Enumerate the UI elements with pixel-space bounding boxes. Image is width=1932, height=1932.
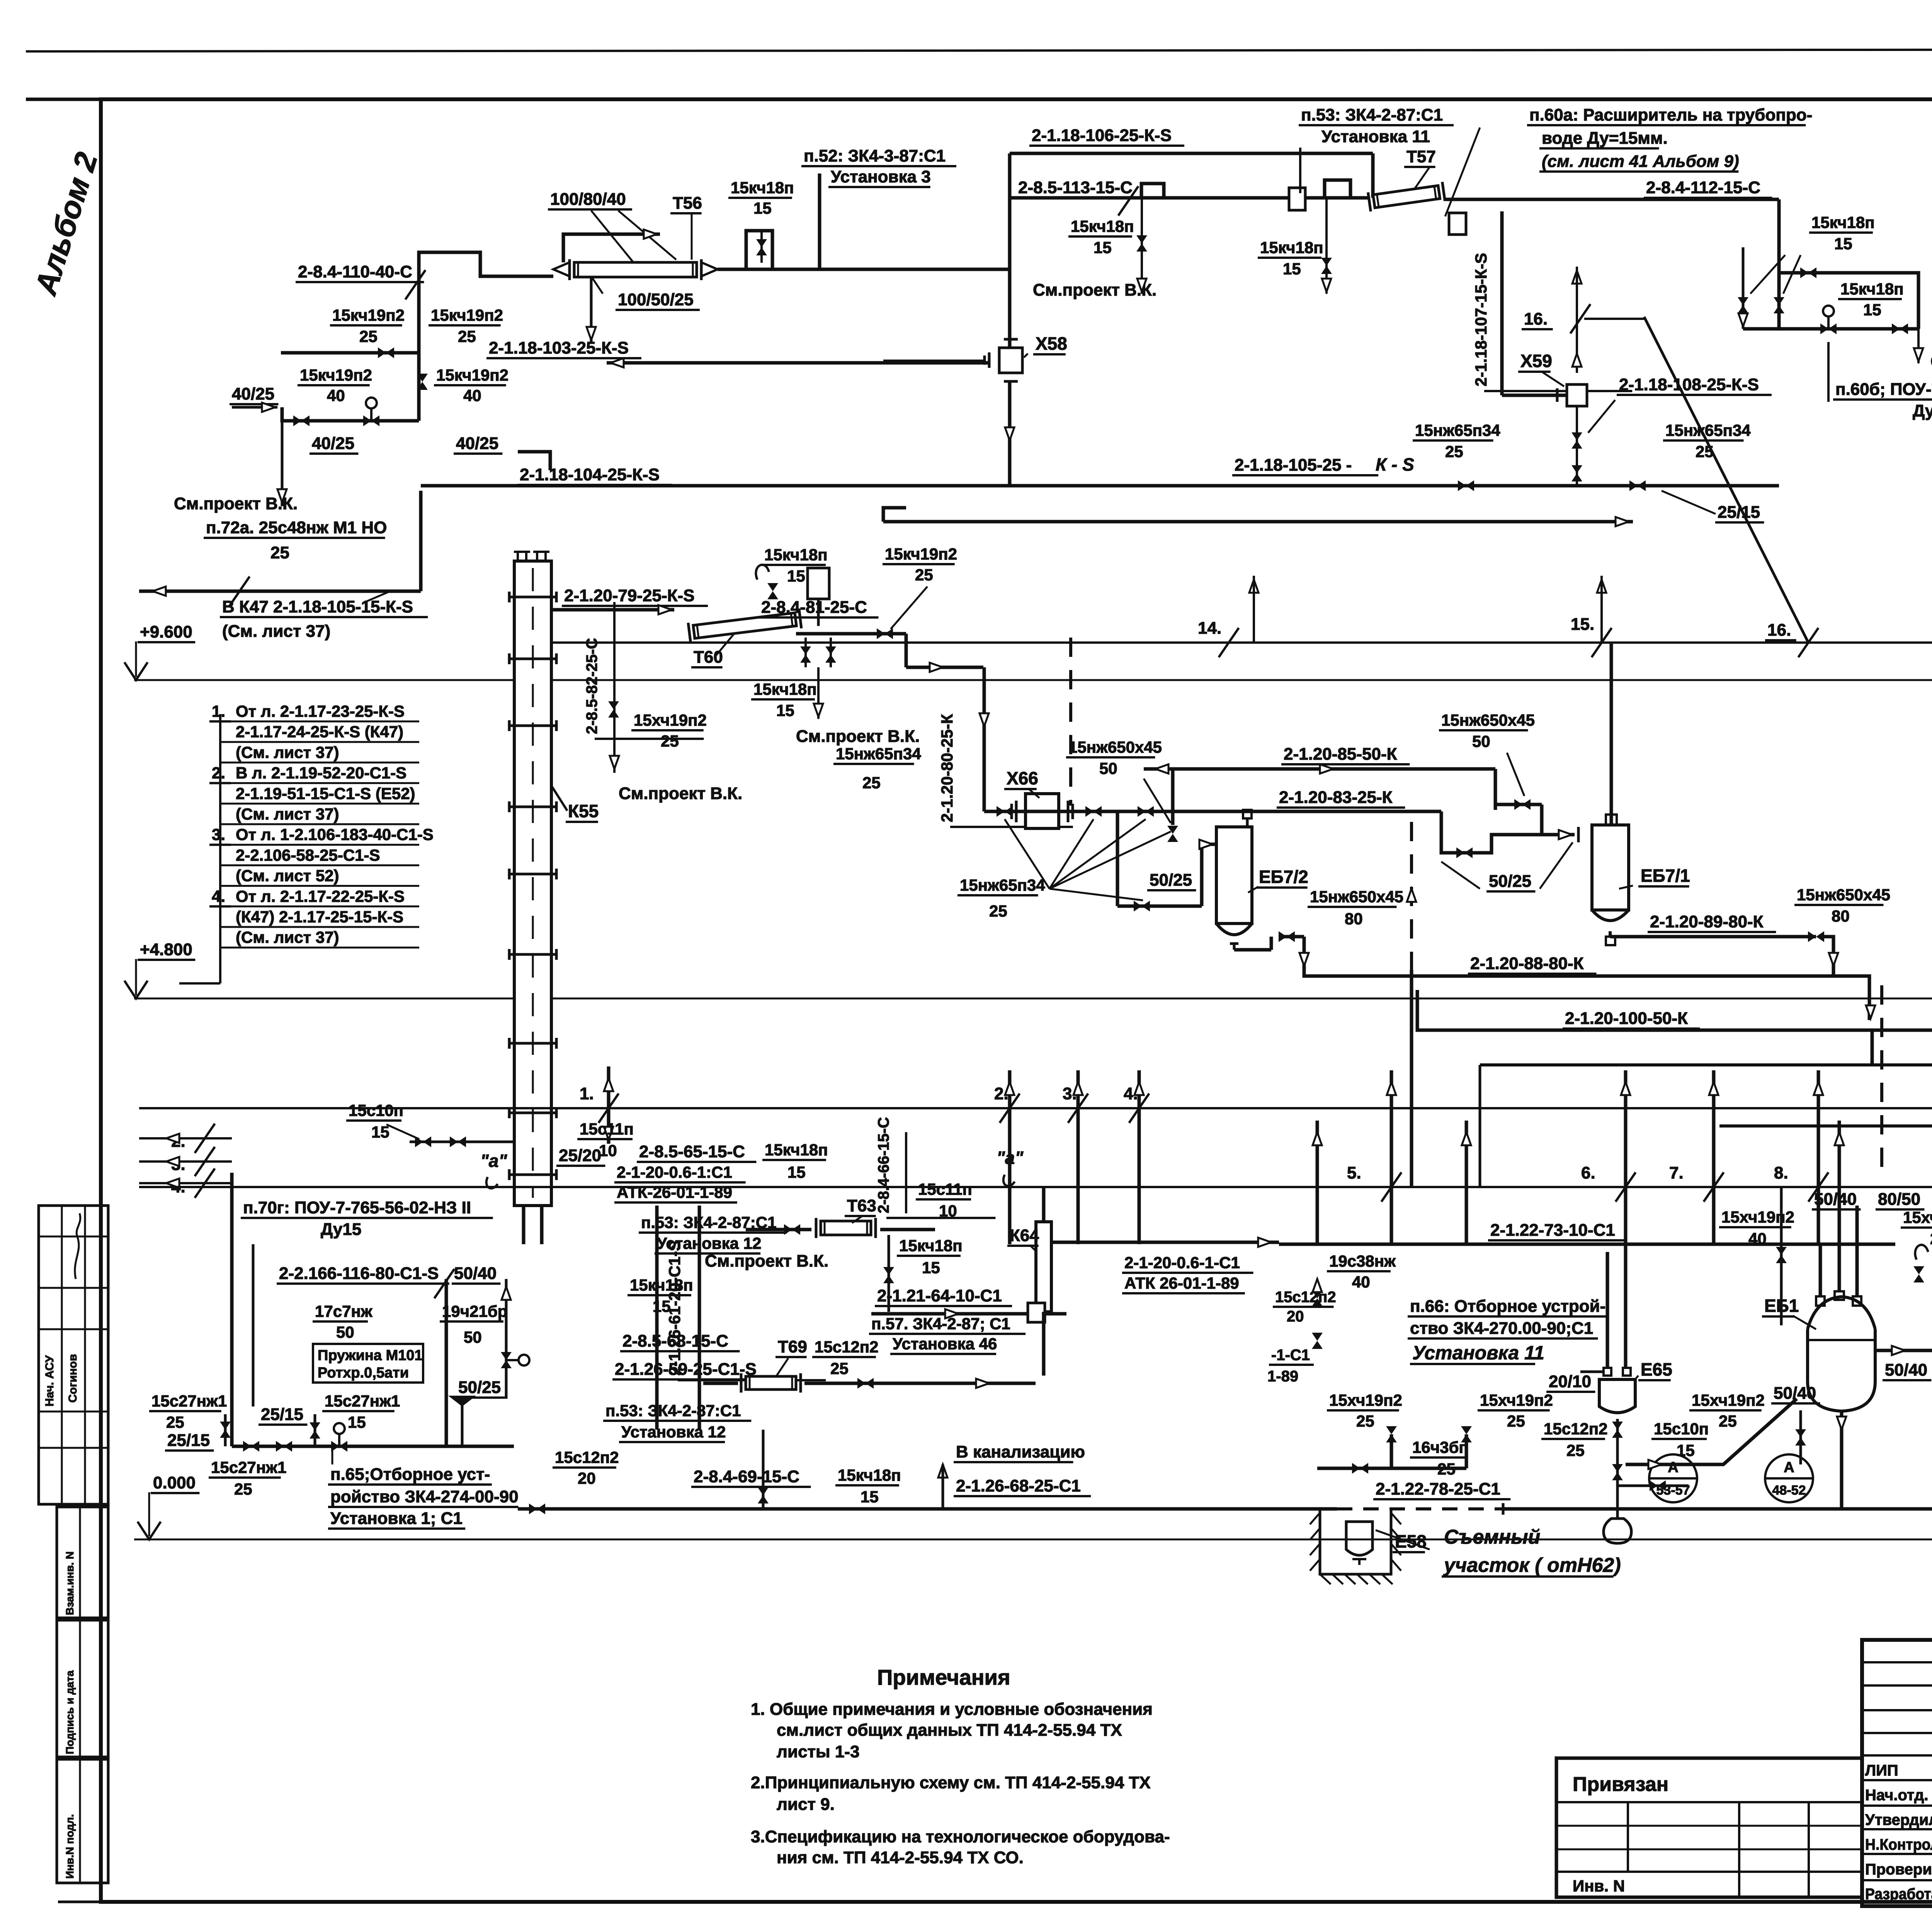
svg-text:Х58: Х58 xyxy=(1036,333,1067,354)
svg-text:+9.600: +9.600 xyxy=(140,622,192,641)
svg-text:п.60а: Расширитель на трубопро: п.60а: Расширитель на трубопро- xyxy=(1529,105,1812,124)
left stamp box 4 (Инв.N подл.) xyxy=(57,1759,108,1883)
svg-text:15: 15 xyxy=(922,1259,940,1277)
svg-text:25: 25 xyxy=(359,327,378,345)
lower manifold to EB7/2 inlet xyxy=(1116,811,1119,906)
svg-text:2-2.106-58-25-С1-S: 2-2.106-58-25-С1-S xyxy=(236,846,380,864)
svg-text:От л. 2-1.17-22-25-К-S: От л. 2-1.17-22-25-К-S xyxy=(236,887,405,905)
svg-text:25: 25 xyxy=(1356,1412,1374,1430)
svg-text:25: 25 xyxy=(458,327,476,345)
svg-text:15: 15 xyxy=(348,1413,366,1431)
bump xyxy=(1325,180,1350,198)
svg-text:50/40: 50/40 xyxy=(454,1264,497,1283)
source list entries 1-4 xyxy=(219,714,221,983)
svg-text:50/25: 50/25 xyxy=(1489,872,1531,891)
svg-text:Х66: Х66 xyxy=(1007,768,1038,788)
valves under T60 outlet xyxy=(804,638,807,667)
EB7/1 inlet from manifold xyxy=(1540,804,1544,835)
svg-text:А: А xyxy=(1784,1459,1794,1476)
riser to unit 3 xyxy=(818,173,821,269)
bump over pipe xyxy=(746,231,772,269)
svg-text:АТК 26-01-1-89: АТК 26-01-1-89 xyxy=(1124,1274,1239,1292)
svg-text:19ч21бр: 19ч21бр xyxy=(442,1302,507,1320)
svg-text:Согинов: Согинов xyxy=(66,1354,79,1403)
frame bottom inner line xyxy=(58,1901,101,1903)
svg-text:15с10п: 15с10п xyxy=(1654,1420,1709,1438)
svg-text:15кч18п: 15кч18п xyxy=(899,1236,963,1255)
K64 outlet right xyxy=(1051,1241,1279,1244)
svg-text:1.: 1. xyxy=(212,702,225,720)
svg-text:15хч19п2: 15хч19п2 xyxy=(1480,1391,1553,1409)
riser from line 100 down to line 13 xyxy=(1871,1030,1874,1065)
svg-text:40: 40 xyxy=(463,386,481,405)
svg-text:2-8.5-113-15-С: 2-8.5-113-15-С xyxy=(1018,178,1133,197)
pipe into X58 xyxy=(883,360,985,363)
svg-text:2.: 2. xyxy=(212,764,225,782)
svg-text:2-1.19-51-15-С1-S (Е52): 2-1.19-51-15-С1-S (Е52) xyxy=(236,784,415,803)
svg-text:Привязан: Привязан xyxy=(1573,1773,1668,1796)
svg-text:15кч18п: 15кч18п xyxy=(764,546,828,564)
svg-text:15с11п: 15с11п xyxy=(580,1120,634,1138)
EB1 bottom outlet xyxy=(1840,1410,1844,1509)
level line +9.600 xyxy=(134,679,1932,681)
EB1 top nozzles xyxy=(1816,1296,1825,1306)
svg-text:Пружина М101: Пружина М101 xyxy=(318,1347,423,1364)
svg-text:3.Спецификацию на технологичес: 3.Спецификацию на технологическое оборуд… xyxy=(751,1827,1170,1846)
svg-text:2-8.4-110-40-С: 2-8.4-110-40-С xyxy=(298,262,412,281)
left stamp box 1 (Нач. АСУ / Согинов) xyxy=(39,1206,108,1504)
svg-text:15нж650х45: 15нж650х45 xyxy=(1310,888,1403,906)
svg-text:15кч18п: 15кч18п xyxy=(765,1141,828,1159)
svg-text:Установка 3: Установка 3 xyxy=(831,167,931,186)
column K64 xyxy=(1036,1222,1051,1312)
valve under bend xyxy=(1795,1429,1806,1446)
instrument circle A 53-57 xyxy=(1649,1454,1697,1502)
E65 bottom valve chain xyxy=(1616,1419,1619,1509)
riser 2. x=2613 xyxy=(1008,1070,1012,1244)
K64 body verticals xyxy=(1042,1188,1046,1222)
svg-text:Установка 11: Установка 11 xyxy=(1321,127,1430,146)
drop from X58 to main line xyxy=(1008,381,1012,486)
corner riser from 85 line to manifold xyxy=(1171,769,1175,825)
svg-text:1. Общие примечания и условные: 1. Общие примечания и условные обозначен… xyxy=(751,1700,1153,1719)
svg-text:20: 20 xyxy=(1287,1308,1304,1325)
small bottle under xyxy=(1604,1519,1631,1543)
svg-text:2-1.20-83-25-К: 2-1.20-83-25-К xyxy=(1279,788,1393,807)
svg-text:2-1.21-64-10-С1: 2-1.21-64-10-С1 xyxy=(877,1286,1002,1305)
svg-text:15кч19п2: 15кч19п2 xyxy=(300,366,372,384)
small vessel top right of K55 xyxy=(808,568,829,599)
svg-text:40/25: 40/25 xyxy=(456,434,498,453)
svg-text:п.72а. 25с48нж М1 НО: п.72а. 25с48нж М1 НО xyxy=(206,518,387,537)
left safety loop xyxy=(230,1173,234,1446)
valves on line to column bottom xyxy=(410,1141,514,1143)
svg-text:25: 25 xyxy=(166,1413,184,1431)
node 4 line xyxy=(139,1182,232,1184)
svg-text:В л. 2-1.19-52-20-С1-S: В л. 2-1.19-52-20-С1-S xyxy=(236,764,406,782)
svg-text:25/15: 25/15 xyxy=(261,1405,303,1424)
thin collector line nodes 1-4 xyxy=(139,1107,1932,1109)
expander on line xyxy=(1289,188,1305,210)
dashed removable section xyxy=(1337,1507,1503,1510)
valve under X59 xyxy=(1576,406,1578,486)
svg-text:15кч18п: 15кч18п xyxy=(731,179,794,197)
svg-text:(См. лист 37): (См. лист 37) xyxy=(236,743,339,761)
loop above T56 xyxy=(563,234,660,262)
svg-text:АТК-26-01-1-89: АТК-26-01-1-89 xyxy=(617,1183,732,1201)
svg-text:100/50/25: 100/50/25 xyxy=(618,290,694,309)
svg-text:В канализацию: В канализацию xyxy=(956,1442,1085,1461)
svg-text:2-1.18-103-25-К-S: 2-1.18-103-25-К-S xyxy=(489,338,629,357)
svg-text:К - S: К - S xyxy=(1376,454,1414,474)
svg-text:25: 25 xyxy=(1566,1441,1585,1459)
svg-text:воде Ду=15мм.: воде Ду=15мм. xyxy=(1542,129,1668,148)
svg-text:15кч18п: 15кч18п xyxy=(630,1276,693,1294)
svg-text:Подпись и дата: Подпись и дата xyxy=(64,1670,76,1754)
svg-text:См.проект В.К.: См.проект В.К. xyxy=(705,1252,828,1270)
svg-text:"а": "а" xyxy=(997,1148,1024,1168)
svg-text:16.: 16. xyxy=(1767,621,1791,639)
svg-text:2-1-20-0.6-1:С1: 2-1-20-0.6-1:С1 xyxy=(617,1163,732,1181)
svg-text:40/25: 40/25 xyxy=(232,384,274,403)
svg-text:40: 40 xyxy=(1748,1230,1767,1248)
svg-text:Съемный: Съемный xyxy=(1444,1526,1540,1548)
svg-text:15нж65п34: 15нж65п34 xyxy=(836,745,921,763)
svg-text:15: 15 xyxy=(1094,238,1112,257)
svg-text:40/25: 40/25 xyxy=(312,434,354,453)
svg-text:25: 25 xyxy=(1719,1412,1737,1430)
svg-text:Е58: Е58 xyxy=(1395,1531,1427,1551)
svg-text:50/25: 50/25 xyxy=(1150,871,1192,889)
svg-text:15кч18п: 15кч18п xyxy=(1811,213,1875,231)
svg-text:2-1.20-79-25-К-S: 2-1.20-79-25-К-S xyxy=(564,586,694,605)
thin collector line nodes 5-9 xyxy=(139,1186,1932,1188)
svg-text:15кч19п2: 15кч19п2 xyxy=(436,366,509,384)
bottom-left outgoing arrow line xyxy=(139,590,421,593)
svg-text:3.: 3. xyxy=(212,825,225,844)
svg-text:Т56: Т56 xyxy=(673,194,702,213)
svg-text:ния см. ТП 414-2-55.94 ТХ СО.: ния см. ТП 414-2-55.94 ТХ СО. xyxy=(777,1848,1024,1867)
svg-text:п.70г: ПОУ-7-765-56-02-НЗ II: п.70г: ПОУ-7-765-56-02-НЗ II xyxy=(243,1198,471,1217)
svg-text:Установка 11: Установка 11 xyxy=(1412,1342,1544,1364)
svg-text:2-8.4-69-15-С: 2-8.4-69-15-С xyxy=(694,1467,799,1486)
tank EB1 xyxy=(1808,1329,1875,1411)
heat exchanger T57 xyxy=(1368,182,1445,212)
svg-text:Н.Контроль: Н.Контроль xyxy=(1865,1836,1932,1853)
svg-text:2-1.26-61-20-С1-S: 2-1.26-61-20-С1-S xyxy=(665,1240,684,1376)
svg-text:ЕБ7/1: ЕБ7/1 xyxy=(1641,866,1690,886)
svg-text:2-1.26-59-25-С1-S: 2-1.26-59-25-С1-S xyxy=(615,1360,757,1379)
svg-text:53-57: 53-57 xyxy=(1656,1483,1690,1498)
svg-text:15: 15 xyxy=(753,199,772,217)
svg-text:ройство ЗК4-274-00-90: ройство ЗК4-274-00-90 xyxy=(330,1487,519,1506)
K55 bottom piping xyxy=(522,1206,526,1244)
svg-text:50/40: 50/40 xyxy=(1885,1361,1927,1379)
svg-text:+4.800: +4.800 xyxy=(140,940,192,959)
svg-text:2-1.20-80-25-К: 2-1.20-80-25-К xyxy=(938,714,956,822)
svg-text:25: 25 xyxy=(830,1359,849,1378)
riser x=4760 xyxy=(1838,1121,1841,1244)
svg-text:15хч19п2: 15хч19п2 xyxy=(1329,1391,1402,1409)
EB1 outlet right xyxy=(1875,1349,1932,1352)
drain set below xyxy=(762,1430,765,1509)
svg-text:14.: 14. xyxy=(1198,619,1221,638)
svg-text:Инв. N: Инв. N xyxy=(1573,1877,1625,1895)
lower manifold xyxy=(1337,1467,1466,1470)
vertical drop to lower network xyxy=(983,667,986,811)
heat exchanger T56 xyxy=(570,259,701,280)
svg-text:3.: 3. xyxy=(1063,1084,1077,1103)
svg-text:2-1.22-73-10-С1: 2-1.22-73-10-С1 xyxy=(1490,1221,1615,1240)
svg-text:25/15: 25/15 xyxy=(167,1431,210,1450)
svg-text:См.проект В.К.: См.проект В.К. xyxy=(796,727,920,746)
svg-text:(См. лист 37): (См. лист 37) xyxy=(236,805,339,823)
level line 0.000 xyxy=(134,1539,1932,1541)
heat exchanger T69 xyxy=(741,1373,801,1393)
svg-text:2-1-20-0.6-1-С1: 2-1-20-0.6-1-С1 xyxy=(1124,1253,1240,1272)
svg-text:Нач. АСУ: Нач. АСУ xyxy=(43,1355,56,1406)
valve and drop below T56 xyxy=(590,276,593,344)
svg-text:Т63: Т63 xyxy=(847,1196,876,1215)
vessel EB7/2 xyxy=(1216,827,1252,923)
svg-text:Т60: Т60 xyxy=(694,648,723,667)
svg-text:15.: 15. xyxy=(1571,615,1594,634)
svg-text:2-8.4-81-25-С: 2-8.4-81-25-С xyxy=(761,598,867,617)
diagonal line to marker 16 lower xyxy=(1644,317,1808,643)
riser 8. x=4706 xyxy=(1817,1070,1820,1244)
svg-text:80: 80 xyxy=(1832,907,1850,925)
svg-text:1.: 1. xyxy=(580,1084,594,1103)
svg-text:15хч19п2: 15хч19п2 xyxy=(1692,1391,1765,1409)
riser x=3795 xyxy=(1465,1121,1468,1244)
svg-text:2-1.18-105-25 -: 2-1.18-105-25 - xyxy=(1235,456,1352,474)
svg-text:См.проект В.К.: См.проект В.К. xyxy=(174,494,298,513)
svg-text:2-1.22-78-25-С1: 2-1.22-78-25-С1 xyxy=(1376,1480,1500,1498)
svg-text:15с12п2: 15с12п2 xyxy=(1275,1289,1336,1306)
svg-text:ство ЗК4-270.00-90;С1: ство ЗК4-270.00-90;С1 xyxy=(1410,1319,1593,1338)
dashed vertical right of EB1 risers xyxy=(1880,985,1883,1175)
svg-text:15: 15 xyxy=(787,567,805,585)
svg-text:10: 10 xyxy=(599,1141,617,1160)
svg-text:4.: 4. xyxy=(212,887,225,905)
svg-text:15нж65п34: 15нж65п34 xyxy=(1665,421,1751,439)
svg-text:Установка 1; С1: Установка 1; С1 xyxy=(330,1509,463,1528)
svg-text:ЛИП: ЛИП xyxy=(1865,1762,1898,1779)
lower-left inlet bend xyxy=(1626,1399,1797,1464)
svg-text:100/80/40: 100/80/40 xyxy=(550,190,626,209)
pipe riser into T56 xyxy=(419,252,553,421)
riser 5. x=3601 xyxy=(1390,1070,1393,1244)
svg-text:50/40: 50/40 xyxy=(1814,1190,1857,1209)
svg-text:п.66: Отборное устрой-: п.66: Отборное устрой- xyxy=(1410,1297,1605,1316)
main bottom pipe xyxy=(518,1507,1337,1511)
svg-text:25: 25 xyxy=(234,1480,252,1498)
cross-valve X59 xyxy=(1502,394,1567,397)
svg-text:25/15: 25/15 xyxy=(1718,503,1760,522)
top band bottom line / frame top xyxy=(26,98,1932,101)
svg-text:2-1.20-100-50-К: 2-1.20-100-50-К xyxy=(1565,1009,1688,1028)
svg-text:25: 25 xyxy=(661,732,679,750)
svg-text:15хч19п2: 15хч19п2 xyxy=(634,711,707,729)
E65 top nozzles xyxy=(1604,1368,1611,1376)
svg-text:16ч3бг: 16ч3бг xyxy=(1412,1438,1466,1456)
svg-text:80/50: 80/50 xyxy=(1878,1190,1920,1209)
svg-text:15хч19п2: 15хч19п2 xyxy=(1903,1208,1932,1226)
dashed vertical near EB7 area xyxy=(1410,822,1413,970)
svg-text:"а": "а" xyxy=(480,1151,507,1171)
vessel E58 in pit xyxy=(1346,1522,1372,1555)
svg-text:Примечания: Примечания xyxy=(877,1665,1010,1689)
svg-text:К55: К55 xyxy=(568,801,599,821)
svg-text:К64: К64 xyxy=(1010,1226,1039,1245)
svg-text:1-89: 1-89 xyxy=(1267,1368,1298,1385)
title block outer box xyxy=(1862,1640,1932,1906)
svg-text:15с12п2: 15с12п2 xyxy=(555,1448,619,1466)
svg-text:2.: 2. xyxy=(994,1084,1009,1103)
svg-text:См.проект В.К.: См.проект В.К. xyxy=(619,784,742,803)
svg-text:15с27нж1: 15с27нж1 xyxy=(151,1392,227,1410)
svg-text:2-1.26-68-25-С1: 2-1.26-68-25-С1 xyxy=(956,1476,1081,1495)
svg-text:Т69: Т69 xyxy=(778,1337,807,1356)
svg-text:15нж650х45: 15нж650х45 xyxy=(1797,886,1890,904)
svg-text:2-1.18-104-25-К-S: 2-1.18-104-25-К-S xyxy=(520,465,660,484)
svg-text:8.: 8. xyxy=(1774,1163,1788,1182)
vessel EB7/1 xyxy=(1592,825,1629,910)
svg-text:15кч18п: 15кч18п xyxy=(838,1466,901,1484)
riser x=3409 xyxy=(1316,1121,1319,1244)
svg-text:50: 50 xyxy=(1472,732,1490,750)
svg-text:20/10: 20/10 xyxy=(1549,1372,1591,1391)
svg-text:2-1.20-88-80-К: 2-1.20-88-80-К xyxy=(1470,954,1584,973)
svg-text:2-1.18-107-15-К-S: 2-1.18-107-15-К-S xyxy=(1472,253,1490,386)
svg-text:п.52: ЗК4-3-87:С1: п.52: ЗК4-3-87:С1 xyxy=(804,146,946,165)
svg-text:25: 25 xyxy=(915,566,933,584)
svg-text:2-8.5-82-25-С: 2-8.5-82-25-С xyxy=(583,638,600,734)
svg-text:Ротхр.0,5ати: Ротхр.0,5ати xyxy=(318,1365,409,1381)
svg-text:15нж650х45: 15нж650х45 xyxy=(1441,711,1535,729)
svg-text:50: 50 xyxy=(464,1328,482,1346)
svg-text:0.000: 0.000 xyxy=(153,1473,196,1492)
svg-text:15с27нж1: 15с27нж1 xyxy=(325,1392,400,1410)
svg-text:15кч18п: 15кч18п xyxy=(753,680,817,698)
svg-text:48-52: 48-52 xyxy=(1772,1483,1806,1498)
svg-text:ЕБ7/2: ЕБ7/2 xyxy=(1259,867,1308,887)
svg-text:Инв.N подл.: Инв.N подл. xyxy=(64,1814,76,1879)
svg-text:2-1.18-108-25-К-S: 2-1.18-108-25-К-S xyxy=(1619,375,1759,394)
svg-text:16.: 16. xyxy=(1524,310,1548,328)
svg-text:15нж65п34: 15нж65п34 xyxy=(1415,421,1500,439)
svg-text:15: 15 xyxy=(776,701,794,719)
svg-text:15нж65п34: 15нж65п34 xyxy=(960,876,1045,894)
instrument circle A 48-52 xyxy=(1765,1454,1813,1502)
node 3 line xyxy=(139,1160,232,1163)
svg-text:15: 15 xyxy=(1863,301,1881,319)
svg-text:п.65;Отборное уст-: п.65;Отборное уст- xyxy=(330,1465,490,1484)
level line +4.800 xyxy=(134,998,1932,1000)
svg-text:15с27нж1: 15с27нж1 xyxy=(211,1458,286,1476)
svg-text:п.53: ЗК4-2-87:С1: п.53: ЗК4-2-87:С1 xyxy=(605,1401,741,1420)
svg-text:15: 15 xyxy=(861,1488,879,1506)
node 2 line xyxy=(139,1137,232,1139)
svg-text:2-2.166-116-80-С1-S: 2-2.166-116-80-С1-S xyxy=(279,1264,439,1283)
svg-text:25: 25 xyxy=(1930,1230,1932,1248)
svg-text:(см. лист 41 Альбом 9): (см. лист 41 Альбом 9) xyxy=(1542,152,1739,171)
svg-text:15с11п: 15с11п xyxy=(918,1180,972,1198)
svg-text:80: 80 xyxy=(1345,910,1363,928)
svg-text:15с12п2: 15с12п2 xyxy=(815,1338,879,1356)
svg-text:19с38нж: 19с38нж xyxy=(1329,1252,1396,1270)
svg-text:15кч18п: 15кч18п xyxy=(1840,280,1904,298)
svg-text:25: 25 xyxy=(1696,442,1714,461)
svg-text:(См. лист 37): (См. лист 37) xyxy=(222,622,330,641)
svg-text:15кч19п2: 15кч19п2 xyxy=(332,306,405,324)
svg-text:Разработал: Разработал xyxy=(1865,1886,1932,1903)
svg-text:6.: 6. xyxy=(1581,1163,1595,1182)
right top valve manifold xyxy=(1777,199,1781,329)
svg-text:15нж650х45: 15нж650х45 xyxy=(1068,738,1162,756)
svg-text:15с10п: 15с10п xyxy=(349,1101,403,1119)
pipe from T56 to right xyxy=(718,268,1010,271)
svg-text:20: 20 xyxy=(578,1469,596,1487)
svg-text:2-8.5-65-15-С: 2-8.5-65-15-С xyxy=(639,1142,745,1161)
svg-text:См.проект В.К.: См.проект В.К. xyxy=(1930,352,1932,371)
marker line with nodes 14,15,16 xyxy=(553,641,1932,644)
svg-text:25: 25 xyxy=(862,774,881,792)
svg-text:Проверил: Проверил xyxy=(1865,1861,1932,1878)
svg-text:25: 25 xyxy=(1507,1412,1525,1430)
riser 3. x=2790 xyxy=(1077,1070,1080,1244)
drain to Sm.proekt V.K. xyxy=(1917,329,1920,363)
vessel E65 xyxy=(1599,1379,1635,1413)
svg-text:15кч19п2: 15кч19п2 xyxy=(431,306,503,324)
heat exchanger T63 xyxy=(816,1218,876,1238)
vertical connecting bottom arrow line xyxy=(419,491,423,591)
svg-text:2-1.17-24-25-К-S (К47): 2-1.17-24-25-К-S (К47) xyxy=(236,723,403,741)
svg-text:2.Принципиальную схему см. ТП: 2.Принципиальную схему см. ТП 414-2-55.9… xyxy=(751,1773,1151,1792)
svg-text:А: А xyxy=(1668,1459,1678,1476)
svg-text:15хч19п2: 15хч19п2 xyxy=(1721,1208,1794,1226)
svg-text:25: 25 xyxy=(989,902,1007,920)
svg-text:15: 15 xyxy=(787,1163,806,1181)
svg-text:15: 15 xyxy=(1283,260,1301,278)
svg-text:4.: 4. xyxy=(1124,1084,1138,1103)
svg-text:15кч19п2: 15кч19п2 xyxy=(885,545,957,563)
svg-text:Ду15: Ду15 xyxy=(321,1220,361,1239)
riser 6. x=4207 xyxy=(1624,1070,1628,1244)
svg-text:10: 10 xyxy=(939,1202,957,1220)
filter X66 xyxy=(1026,794,1059,828)
sheet top edge line xyxy=(26,49,1932,51)
lower manifold left xyxy=(282,407,419,421)
svg-text:(См. лист 52): (См. лист 52) xyxy=(236,867,339,885)
step near column xyxy=(518,452,550,470)
svg-text:15с12п2: 15с12п2 xyxy=(1544,1420,1608,1438)
EB7/2 outlet down to line 88 xyxy=(1234,948,1271,952)
pit hatching xyxy=(1320,1510,1391,1574)
pipes at T63 xyxy=(746,1228,811,1231)
svg-text:50/25: 50/25 xyxy=(458,1378,501,1397)
expander under T57 xyxy=(1449,213,1466,235)
cross-valve X58 xyxy=(999,348,1022,373)
svg-text:15: 15 xyxy=(1834,235,1852,253)
svg-text:2-8.4-112-15-С: 2-8.4-112-15-С xyxy=(1646,178,1760,197)
svg-text:7.: 7. xyxy=(1669,1163,1684,1182)
svg-text:(К47) 2-1.17-25-15-К-S: (К47) 2-1.17-25-15-К-S xyxy=(236,908,403,926)
svg-text:От л. 2-1.17-23-25-К-S: От л. 2-1.17-23-25-К-S xyxy=(236,702,405,720)
svg-text:лист 9.: лист 9. xyxy=(777,1795,835,1814)
svg-text:5.: 5. xyxy=(1347,1163,1361,1182)
svg-text:участок ( отН62): участок ( отН62) xyxy=(1443,1554,1621,1577)
